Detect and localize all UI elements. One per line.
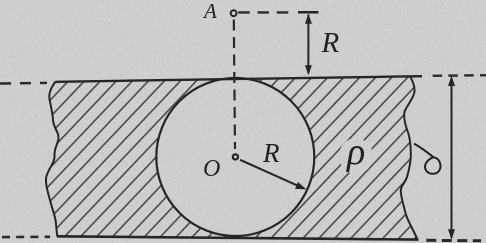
R dimension arrowhead down <box>305 65 312 75</box>
left broken edge <box>46 82 59 237</box>
d dimension arrowhead down <box>448 229 455 239</box>
clearing under rho <box>339 138 373 174</box>
dashed line A to O <box>234 20 235 150</box>
slab hatched body <box>46 76 417 238</box>
radius arrowhead <box>295 182 307 189</box>
point A marker <box>231 10 237 16</box>
label d rotated <box>414 144 440 174</box>
R dimension top bar <box>298 11 319 14</box>
bottom-right dashed extension <box>426 239 481 243</box>
d dimension arrowhead up <box>448 76 455 86</box>
d dimension line <box>451 78 453 238</box>
bottom-left dashed extension <box>2 236 50 239</box>
top-right dashed extension <box>433 74 486 77</box>
right broken edge <box>401 76 417 238</box>
slab top surface <box>56 76 423 82</box>
top-left dashed extension <box>0 82 47 85</box>
R dimension arrowhead up <box>305 14 312 24</box>
radius arrow <box>240 160 298 186</box>
R dimension line <box>307 15 309 74</box>
center O dot <box>233 154 238 159</box>
cavity circle <box>156 78 314 236</box>
dashed leader from A to R dimension <box>238 11 289 13</box>
slab bottom surface <box>57 236 419 239</box>
